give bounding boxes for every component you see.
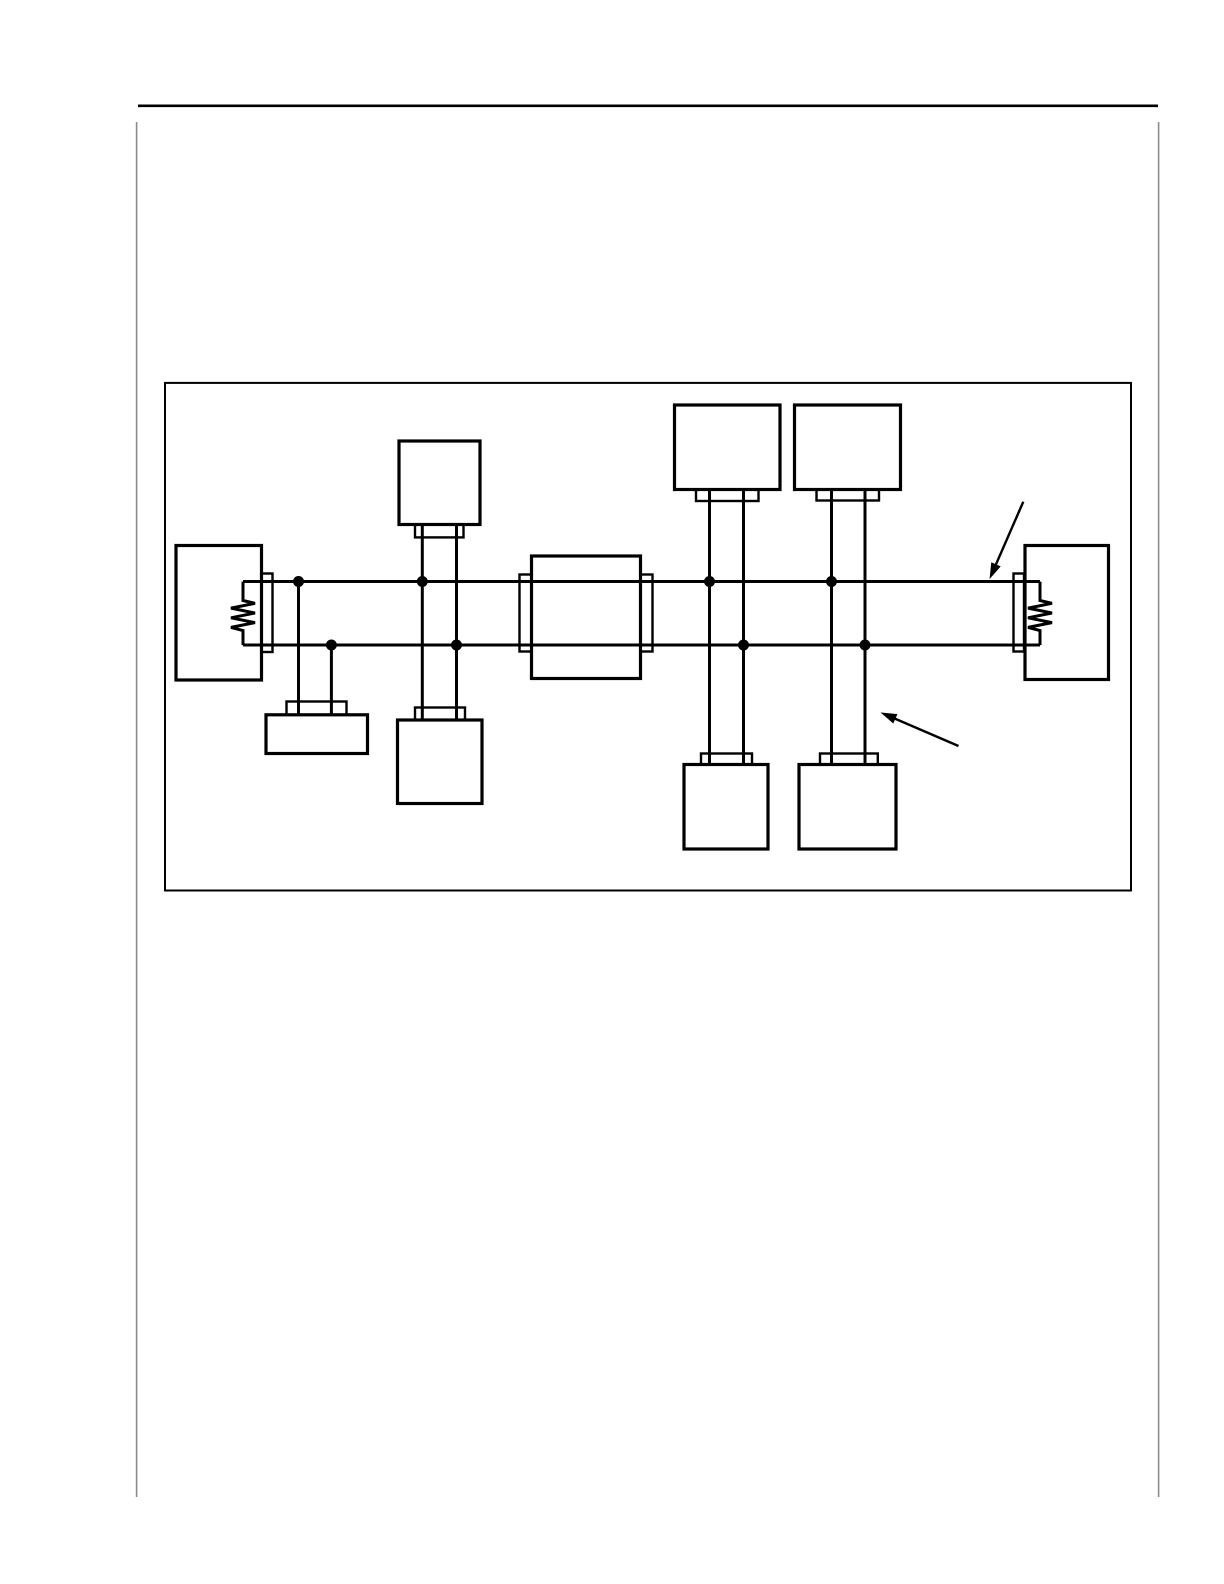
- terminator box right: [1025, 546, 1109, 680]
- terminator box left: [176, 546, 262, 681]
- junction dot top bus station1: [293, 576, 304, 587]
- wire station1 left drop: [297, 582, 300, 715]
- connector station1: [287, 702, 347, 715]
- connector right terminator: [1014, 574, 1025, 652]
- connector repeater left: [520, 575, 532, 652]
- arrow callout drop cable: [882, 713, 959, 746]
- bus wire L1 (top): [243, 580, 1040, 583]
- junction dot top bus station2: [417, 576, 428, 587]
- station3 upper box: [675, 405, 781, 490]
- wire station2 left drop: [421, 524, 424, 720]
- wire station4 right drop: [864, 490, 867, 765]
- left page border: [136, 122, 138, 1497]
- connector station2 upper: [415, 524, 464, 537]
- junction dot bottom bus station4: [860, 640, 871, 651]
- junction dot top bus station3: [704, 576, 715, 587]
- header rule: [138, 105, 1158, 108]
- resistor R1 (left termination): [231, 582, 255, 646]
- station4 upper box: [795, 405, 901, 490]
- junction dot top bus station4: [826, 576, 837, 587]
- junction dot bottom bus station1: [326, 640, 337, 651]
- wire station2 right drop: [455, 524, 458, 720]
- junction dot bottom bus station3: [738, 640, 749, 651]
- diagram frame: [165, 383, 1131, 891]
- bus wire L2 (bottom): [243, 644, 1040, 647]
- wire station1 right drop: [330, 645, 333, 715]
- connector station4 lower: [820, 754, 878, 765]
- junction dot bottom bus station2: [451, 640, 462, 651]
- connector left terminator: [262, 574, 273, 653]
- right page border: [1158, 122, 1160, 1497]
- resistor R2 (right termination): [1028, 582, 1052, 646]
- connector station2 lower: [415, 708, 465, 720]
- wire station3 right drop: [742, 490, 745, 765]
- station4 lower box: [799, 765, 896, 850]
- station3 lower box: [684, 765, 768, 850]
- connector station4 upper: [817, 490, 880, 501]
- wire station3 left drop: [708, 490, 711, 765]
- connector station3 lower: [701, 754, 752, 765]
- station2 lower box: [398, 720, 483, 804]
- station2 upper box: [399, 441, 480, 525]
- connector station3 upper: [696, 490, 759, 502]
- connector repeater right: [641, 575, 653, 652]
- arrow callout bus line: [990, 502, 1023, 578]
- repeater box center: [532, 556, 641, 679]
- station1 box: [266, 715, 368, 754]
- wire station4 left drop: [830, 490, 833, 765]
